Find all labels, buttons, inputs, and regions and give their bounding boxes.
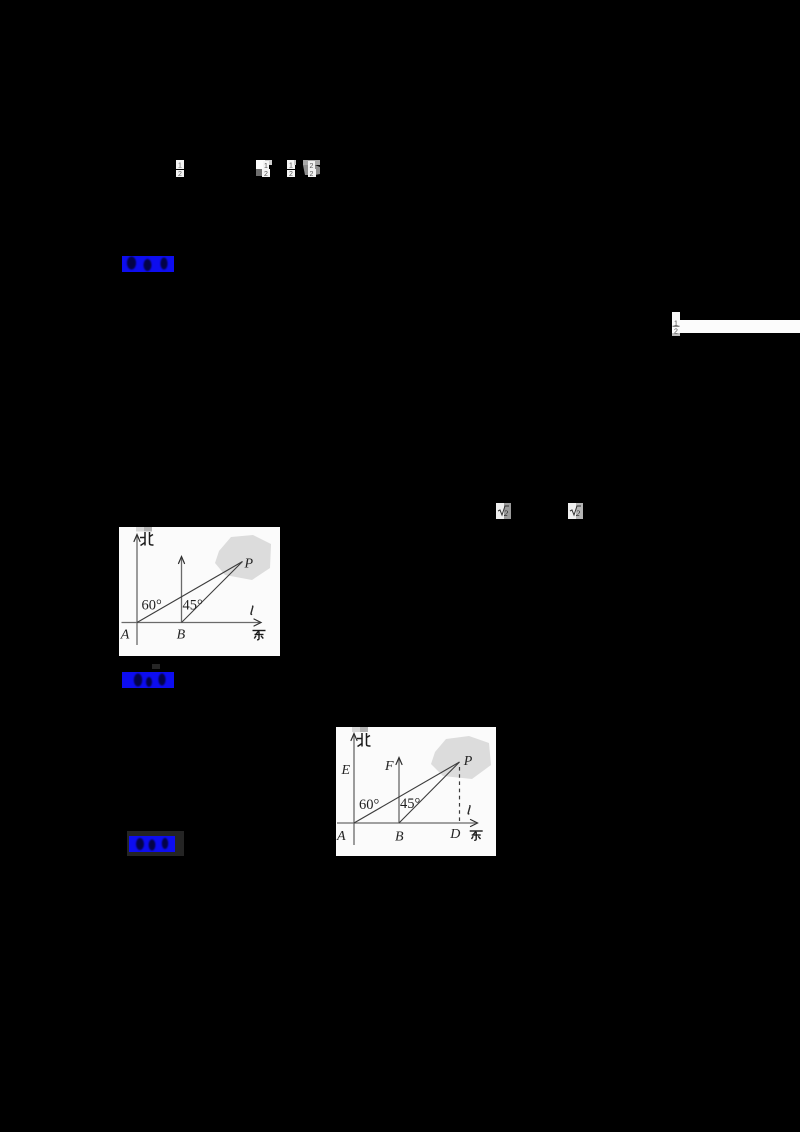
- svg-text:60°: 60°: [359, 797, 380, 813]
- white strip with fraction 1/2 (right overflow): [672, 312, 680, 320]
- angle labels: [142, 598, 204, 614]
- l label stroke: [251, 606, 253, 614]
- svg-text:E: E: [341, 763, 351, 778]
- svg-text:60°: 60°: [142, 598, 163, 614]
- chevron arrowheads: [134, 535, 261, 627]
- axes: [337, 734, 476, 845]
- blue tag 2 (analysis label): [121, 671, 175, 689]
- fraction fragment F2 (sqrt3/2): [255, 159, 273, 178]
- svg-text:2: 2: [178, 171, 182, 178]
- sqrt fragment S1: [495, 502, 512, 520]
- dong glyph: [470, 831, 483, 840]
- bei glyph: [357, 733, 371, 747]
- svg-text:45°: 45°: [400, 796, 421, 812]
- grey blob highlight around P: [431, 736, 491, 779]
- l label stroke: [468, 806, 470, 814]
- svg-text:B: B: [395, 830, 404, 845]
- svg-text:2: 2: [264, 171, 268, 178]
- svg-text:2: 2: [674, 329, 678, 336]
- svg-text:1: 1: [178, 163, 182, 170]
- dark grey artifact square: [152, 664, 160, 669]
- fraction fragment F3 (1/2): [286, 159, 296, 178]
- svg-text:F: F: [384, 759, 394, 774]
- svg-text:45°: 45°: [183, 598, 204, 614]
- axes (scanned grey): [122, 535, 260, 645]
- svg-text:2: 2: [504, 509, 508, 518]
- fraction fragment F4 (sqrt2/2 highlighted): [302, 159, 321, 178]
- grey scan bar top: [352, 727, 360, 732]
- svg-text:2: 2: [310, 163, 314, 170]
- svg-text:P: P: [244, 557, 254, 572]
- svg-text:A: A: [120, 628, 130, 643]
- svg-text:2: 2: [576, 509, 580, 518]
- angle labels: [359, 796, 421, 813]
- grey blob highlight around P: [215, 535, 271, 580]
- dashed PD: [459, 767, 461, 823]
- svg-text:1: 1: [264, 163, 268, 170]
- bearing lines: [354, 762, 460, 823]
- dong glyph: [253, 631, 266, 640]
- bearing lines: [137, 562, 243, 623]
- svg-text:2: 2: [310, 171, 314, 178]
- bei glyph: [140, 532, 154, 546]
- sqrt fragment S2: [567, 502, 584, 520]
- letters: [336, 754, 473, 845]
- blue tag 3 (highlight label) with grey backing: [127, 831, 184, 856]
- svg-text:B: B: [177, 628, 186, 643]
- grey scan bar top: [136, 527, 144, 532]
- svg-text:A: A: [336, 829, 346, 844]
- blue tag 1 (answer label): [121, 255, 175, 273]
- svg-text:1: 1: [289, 163, 293, 170]
- svg-text:2: 2: [289, 171, 293, 178]
- fraction fragment F1 (1/2) top row: [175, 159, 185, 178]
- svg-text:D: D: [449, 827, 460, 842]
- svg-text:P: P: [463, 754, 473, 769]
- letters: [120, 557, 254, 643]
- chevrons: [351, 734, 478, 827]
